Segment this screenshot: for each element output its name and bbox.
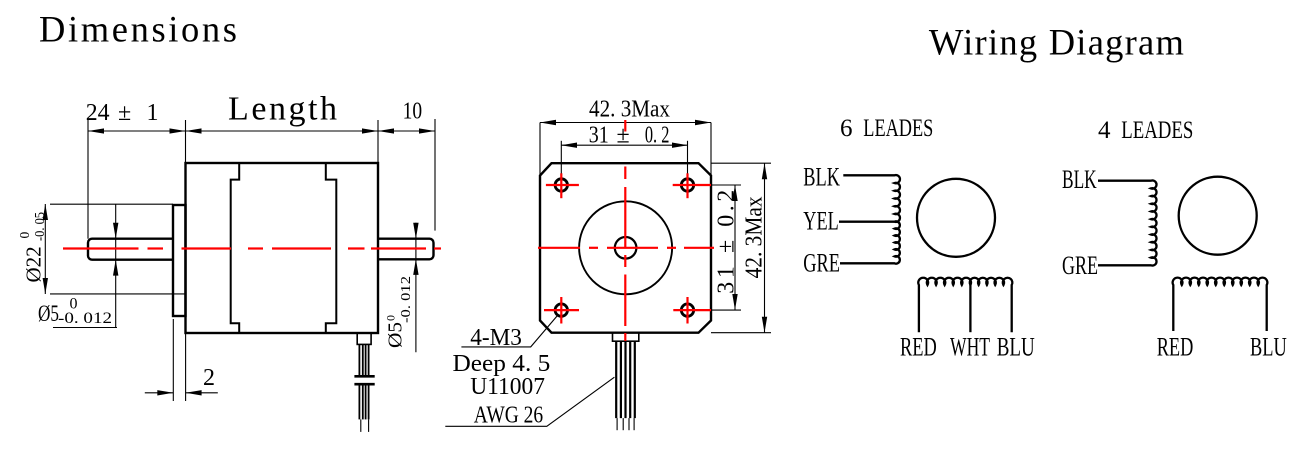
42.3Max top dim line — [540, 122, 711, 124]
winding B (horizontal coil, 4 lead) — [1173, 278, 1268, 331]
dia5 front label underline — [53, 327, 117, 329]
svg-text:±: ± — [118, 100, 131, 126]
wire exit block side view — [357, 333, 371, 344]
svg-text:-0. 012: -0. 012 — [58, 310, 112, 327]
42.3 right extension lines — [711, 162, 771, 164]
svg-text:U11007: U11007 — [470, 374, 545, 400]
rotor circle 6 lead — [917, 179, 995, 257]
42.3 right dim line — [764, 163, 766, 333]
wire tails side view — [361, 419, 369, 432]
front square with chamfers — [540, 163, 711, 333]
svg-text:BLK: BLK — [803, 163, 840, 192]
dim 2 left extension line — [172, 319, 174, 401]
mounting hole top-right — [681, 179, 693, 191]
wire break bar bottom — [354, 383, 374, 386]
svg-text:WHT: WHT — [950, 333, 990, 362]
arrowheads front view — [540, 120, 767, 333]
dia22 bottom extension line — [50, 293, 186, 295]
leader AWG 26 — [445, 377, 614, 426]
svg-text:6: 6 — [840, 115, 853, 142]
mounting hole top-left — [555, 179, 567, 191]
dia5 front dimension line — [115, 204, 117, 327]
svg-text:YEL: YEL — [803, 207, 838, 236]
svg-text:GRE: GRE — [803, 249, 840, 278]
winding A (vertical coil, 4 lead) with BLK/GRE wires — [1098, 180, 1157, 265]
svg-text:-0. 012: -0. 012 — [399, 276, 414, 323]
svg-text:GRE: GRE — [1062, 251, 1098, 280]
svg-text:Ø5: Ø5 — [385, 322, 407, 348]
svg-text:4-M3: 4-M3 — [470, 325, 522, 351]
wire YEL center tap — [839, 221, 895, 223]
rear shaft — [378, 239, 434, 260]
hole crosses red — [546, 184, 579, 186]
svg-text:LEADES: LEADES — [863, 115, 933, 142]
svg-text:42. 3Max: 42. 3Max — [589, 97, 670, 123]
31 right dim line — [734, 185, 736, 310]
wire WHT center tap — [969, 285, 971, 332]
lead wires side view lower — [359, 386, 368, 420]
31 right extension black parts — [711, 184, 741, 186]
body inner step left — [231, 163, 240, 333]
vertical centerline — [624, 120, 626, 132]
svg-text:-0. 05: -0. 05 — [32, 212, 47, 241]
pilot circle — [579, 201, 672, 294]
svg-text:±: ± — [617, 123, 630, 149]
dimension 24±1 / Length / 10 line — [45, 119, 435, 401]
31 top dim line — [561, 144, 688, 146]
centerline (red) side view — [63, 247, 441, 249]
svg-text:RED: RED — [900, 333, 937, 362]
rotor circle 4 lead — [1179, 177, 1257, 255]
extension line at shaft tip x=88 — [87, 120, 89, 239]
rotated 31±0.2 right — [713, 190, 739, 294]
body inner step right — [326, 163, 337, 333]
square edges extension up — [539, 123, 541, 176]
dia22 dimension line — [44, 204, 46, 294]
dia22 top extension line — [50, 203, 173, 205]
svg-text:BLU: BLU — [1250, 333, 1287, 362]
dimension lines front view — [445, 123, 771, 427]
front shaft — [88, 239, 173, 260]
svg-text:2: 2 — [203, 365, 215, 391]
wire tails front view — [617, 418, 634, 430]
extension line rear shaft end — [434, 119, 436, 231]
rotated 42.3Max right — [741, 196, 767, 278]
svg-text:Ø5: Ø5 — [38, 301, 59, 326]
svg-text:0: 0 — [17, 232, 32, 239]
svg-text:10: 10 — [403, 99, 423, 125]
winding B (horizontal coil, 6 lead) — [918, 278, 1012, 332]
svg-text:Ø22: Ø22 — [22, 246, 46, 282]
mounting hole bottom-right — [681, 304, 693, 316]
svg-text:0: 0 — [384, 315, 398, 321]
shaft circle — [615, 237, 637, 259]
svg-text:BLK: BLK — [1062, 165, 1097, 194]
wire break bar top — [354, 375, 374, 378]
svg-text:Wiring Diagram: Wiring Diagram — [929, 22, 1184, 63]
dia5 rear dimension line — [415, 223, 417, 353]
31 top extension lines — [560, 141, 562, 176]
svg-text:BLU: BLU — [997, 333, 1035, 362]
dim 2 right extension line — [185, 333, 187, 401]
svg-text:Length: Length — [228, 91, 337, 128]
svg-text:Dimensions: Dimensions — [39, 8, 237, 49]
winding A (vertical coil, 6 lead) with BLK/GRE wires — [840, 175, 900, 264]
svg-text:42. 3Max: 42. 3Max — [741, 196, 767, 278]
extension line body front face up — [185, 120, 187, 163]
front boss plate — [173, 205, 186, 316]
svg-text:AWG 26: AWG 26 — [474, 403, 543, 429]
red centerlines front view — [538, 120, 714, 341]
wire exit block front view — [613, 333, 639, 342]
mounting hole bottom-left — [555, 304, 567, 316]
svg-text:4: 4 — [1098, 117, 1111, 144]
arrowheads side view — [43, 128, 435, 395]
motor body outline — [186, 163, 379, 333]
lead wires front view — [616, 341, 635, 418]
svg-text:1: 1 — [147, 100, 159, 126]
svg-text:31 ± 0.2: 31 ± 0.2 — [713, 190, 739, 294]
svg-text:31: 31 — [589, 123, 609, 149]
dim 2 arrow lines — [145, 392, 173, 394]
extension line body rear face up — [377, 120, 379, 163]
label dia22 tolerance (rotated) — [17, 212, 47, 283]
leader 4-M3 — [461, 316, 557, 347]
svg-text:LEADES: LEADES — [1121, 117, 1193, 144]
horizontal centerline — [538, 247, 580, 249]
label dia5 rear tolerance (rotated) — [384, 276, 415, 348]
svg-text:24: 24 — [86, 100, 110, 126]
lead wires side view upper — [359, 344, 368, 375]
svg-text:0. 2: 0. 2 — [645, 123, 670, 149]
svg-text:RED: RED — [1157, 333, 1194, 362]
